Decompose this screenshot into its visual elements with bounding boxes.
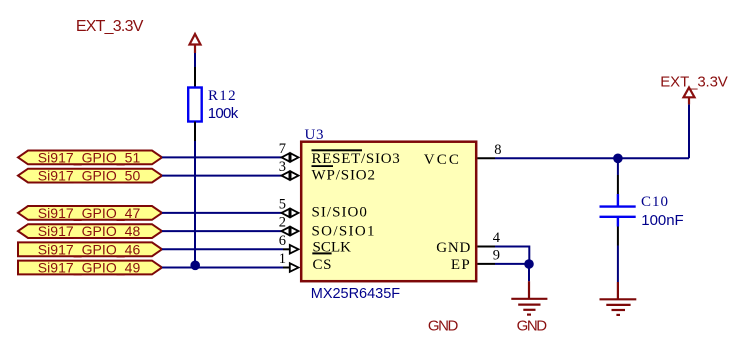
svg-text:WP/SIO2: WP/SIO2 (312, 168, 376, 184)
svg-text:EXT_3.3V: EXT_3.3V (76, 18, 144, 35)
port Si917_GPIO_50 (18, 168, 162, 184)
capacitor C10 top lead (617, 175, 619, 194)
ground symbol under C10 (600, 282, 637, 315)
pin 5 I/O arrow glyph (282, 208, 299, 218)
wire port50 to pin3 (162, 175, 282, 177)
svg-text:R12: R12 (208, 88, 236, 104)
svg-text:C10: C10 (641, 194, 668, 210)
port Si917_GPIO_48 (18, 223, 162, 239)
port Si917_GPIO_49 (flat left) (18, 260, 162, 276)
pin 4 lead (478, 246, 496, 248)
pin 6 input arrow glyph (290, 245, 299, 254)
svg-text:Si917_GPIO_46: Si917_GPIO_46 (38, 241, 141, 257)
wire pin4 to junction (495, 247, 529, 264)
svg-text:CS: CS (313, 257, 332, 273)
wire port48 to pin2 (162, 230, 282, 232)
resistor R12 pin lead top (194, 67, 196, 88)
wire pin9 to junction (495, 263, 529, 265)
overline over RESET (312, 149, 363, 151)
wire R12 to CS net (vertical) (194, 141, 196, 268)
svg-text:5: 5 (279, 196, 286, 212)
svg-text:4: 4 (493, 230, 501, 246)
wire power to R12 (194, 53, 196, 67)
svg-text:U3: U3 (305, 127, 324, 143)
svg-text:Si917_GPIO_48: Si917_GPIO_48 (38, 223, 141, 239)
svg-text:Si917_GPIO_47: Si917_GPIO_47 (38, 205, 141, 221)
pin 7 I/O arrow glyph (282, 153, 299, 163)
svg-text:7: 7 (279, 141, 286, 157)
svg-text:MX25R6435F: MX25R6435F (311, 286, 400, 302)
wire port51 to pin7 (162, 156, 282, 158)
svg-text:Si917_GPIO_50: Si917_GPIO_50 (38, 168, 141, 184)
pin 8 lead (478, 157, 496, 159)
capacitor C10 bottom lead (617, 227, 619, 246)
wire VCC to power (horizontal) (495, 157, 689, 159)
svg-text:3: 3 (279, 159, 286, 175)
wire C10 to ground (617, 246, 619, 283)
svg-text:GND: GND (428, 318, 459, 335)
svg-text:6: 6 (279, 233, 286, 249)
svg-text:100nF: 100nF (641, 212, 683, 229)
pin 2 I/O arrow glyph (282, 226, 299, 236)
power flag EXT_3.3V right : arrow symbol (684, 88, 695, 105)
pin 1 input arrow glyph (290, 263, 299, 272)
svg-text:SO/SIO1: SO/SIO1 (312, 223, 375, 239)
power flag EXT_3.3V left : arrow symbol (190, 34, 201, 53)
wire port49 to pin1 (162, 267, 283, 269)
svg-text:1: 1 (279, 251, 286, 267)
pin 6 lead (283, 248, 290, 250)
wire up to EXT_3.3V right (688, 104, 690, 158)
svg-text:Si917_GPIO_51: Si917_GPIO_51 (38, 149, 141, 165)
svg-text:VCC: VCC (424, 152, 459, 168)
pin 1 lead (283, 267, 290, 269)
junction at R12 / pin1 wire (190, 261, 200, 271)
junction GND/EP (524, 259, 534, 269)
wire port47 to pin5 (162, 212, 282, 214)
svg-text:9: 9 (493, 248, 500, 264)
svg-text:RESET/SIO3: RESET/SIO3 (312, 151, 400, 167)
resistor R12 body (188, 88, 202, 122)
pin 3 I/O arrow glyph (282, 171, 299, 181)
wire port46 to pin6 (162, 248, 283, 250)
svg-text:SI/SIO0: SI/SIO0 (312, 205, 367, 221)
pin 9 lead (478, 263, 496, 265)
svg-text:GND: GND (436, 240, 470, 256)
svg-text:GND: GND (517, 318, 548, 335)
wire junction to C10 (617, 158, 619, 175)
svg-text:Si917_GPIO_49: Si917_GPIO_49 (38, 260, 141, 276)
svg-text:EXT_3.3V: EXT_3.3V (660, 74, 728, 91)
svg-text:2: 2 (279, 215, 286, 231)
junction VCC / C10 (613, 154, 623, 164)
wire junction to ground (528, 264, 530, 281)
svg-text:8: 8 (494, 142, 501, 158)
svg-text:100k: 100k (208, 105, 239, 122)
port Si917_GPIO_51 (18, 149, 162, 165)
port Si917_GPIO_47 (18, 205, 162, 221)
bar between SCLK and CS (312, 252, 331, 254)
port Si917_GPIO_46 (flat left) (18, 241, 162, 257)
underline under RE (312, 165, 334, 167)
IC U3 body (301, 142, 476, 282)
capacitor C10 body (600, 194, 636, 227)
ground symbol under EP junction (511, 281, 547, 314)
resistor R12 pin lead bottom (194, 122, 196, 142)
